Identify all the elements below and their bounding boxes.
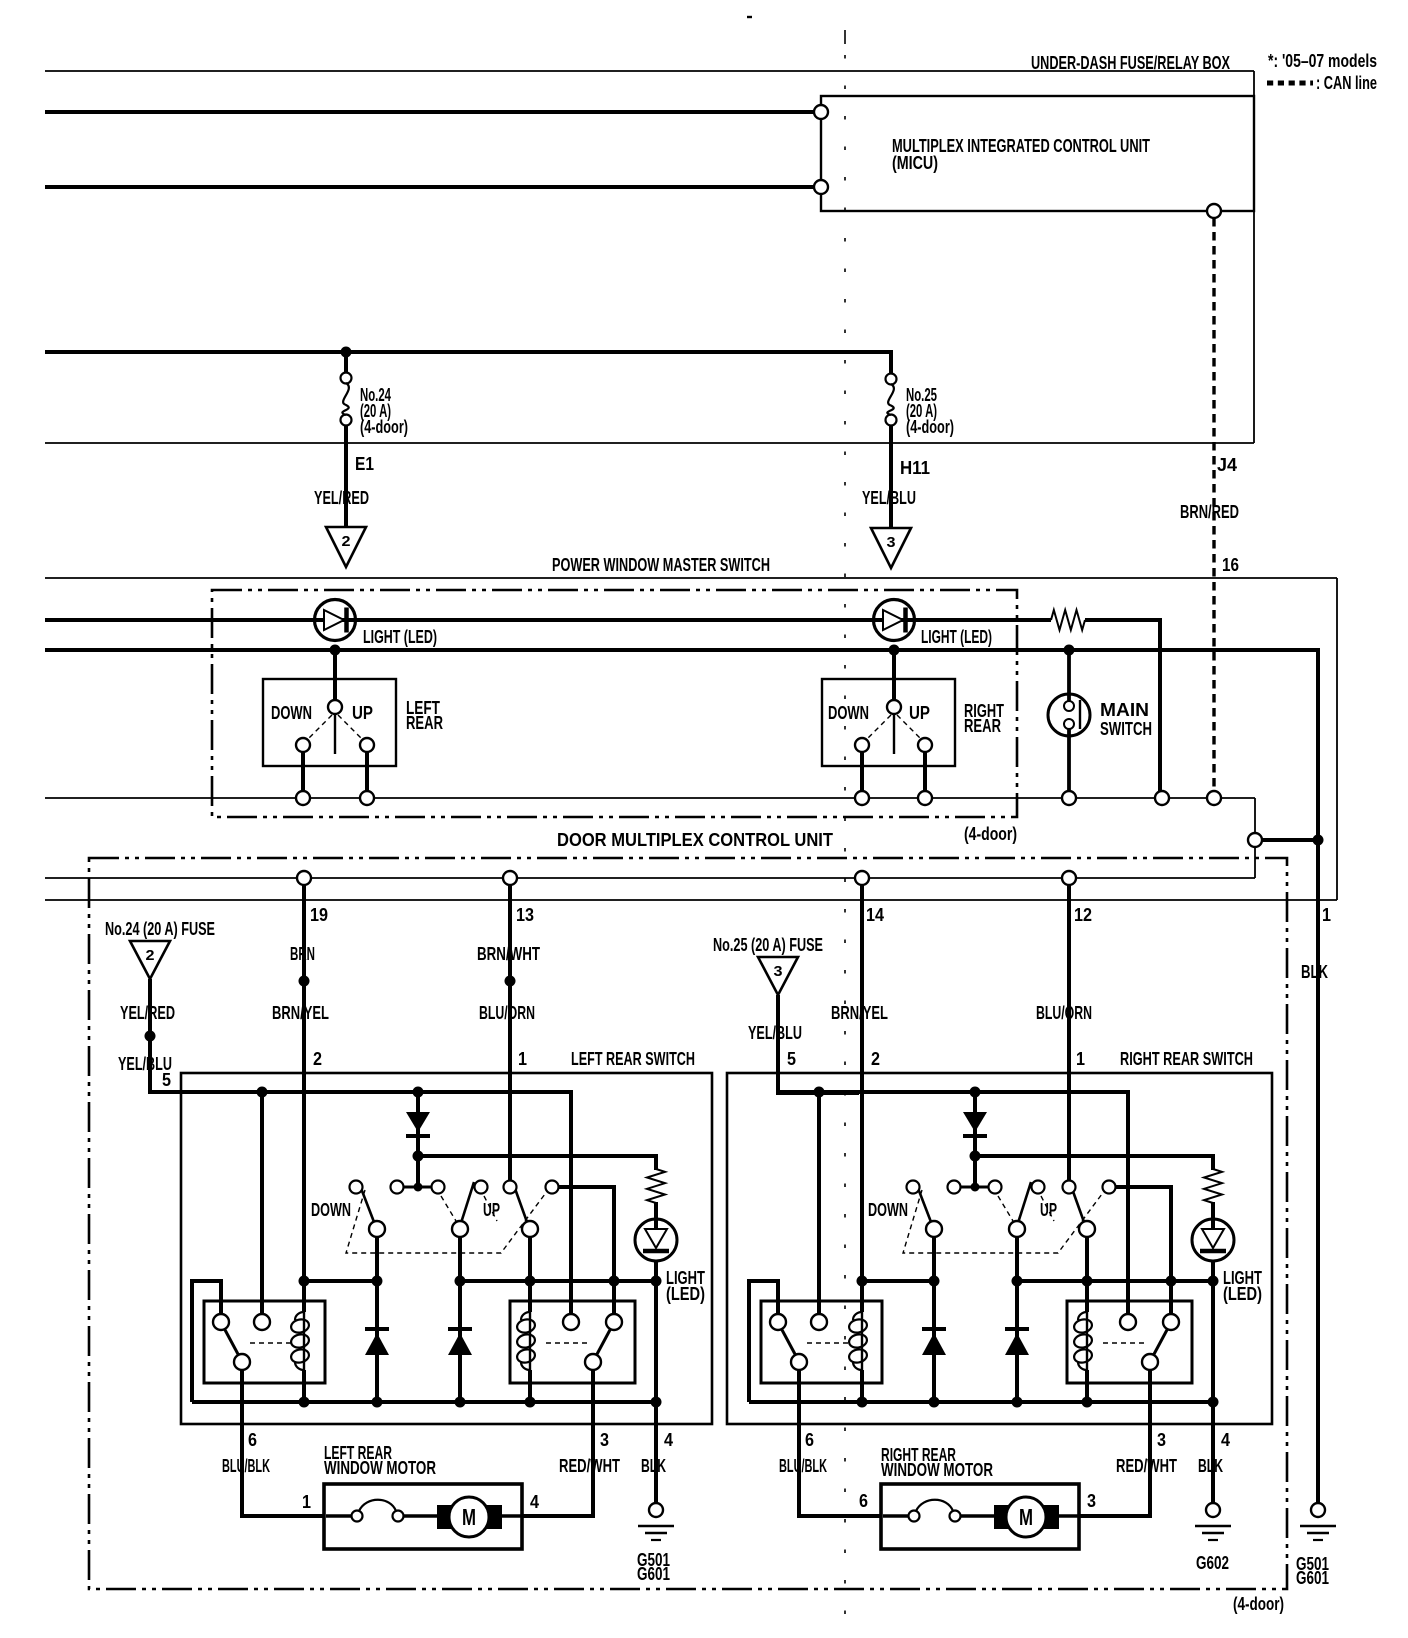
junction RR ground bus LED — [1208, 1397, 1219, 1408]
contact LR c5 — [504, 1181, 517, 1194]
wire master switch box bottom — [45, 899, 1337, 901]
wire LR pin4 BLK — [654, 1402, 658, 1503]
svg-text:BLK: BLK — [1198, 1456, 1223, 1476]
arm RR relay-A — [781, 1328, 796, 1356]
wire fuse No.25 drop — [889, 352, 893, 374]
wire fuse feed bus — [45, 350, 893, 354]
contact LR centre lower — [452, 1221, 468, 1237]
ground G602 right — [1195, 1503, 1231, 1573]
wire under-dash box top — [45, 70, 1254, 72]
wire fuse No.24 output E1 — [344, 425, 348, 527]
diode LR feed — [406, 1112, 430, 1136]
arm RR relay-B — [1153, 1328, 1168, 1356]
contact RR relay-B fixed2 — [1163, 1314, 1179, 1330]
junction LR mid-left a — [299, 1276, 310, 1287]
LED RR light — [1192, 1219, 1234, 1261]
svg-text:BRN/WHT: BRN/WHT — [477, 944, 540, 964]
wire YEL/BLU into right rear switch — [778, 1050, 859, 1093]
junction LR diode feed — [413, 1087, 424, 1098]
LED master left (light) — [315, 600, 356, 641]
svg-text:4: 4 — [530, 1492, 539, 1512]
contact LR c6 — [546, 1181, 559, 1194]
contact left-rear master common — [328, 700, 342, 714]
coil LR relay-A — [290, 1312, 310, 1370]
wire LR resistor to LED — [654, 1202, 658, 1229]
junction BRN/WHT to BLU/ORN — [505, 976, 516, 987]
legend CAN dash sample — [1267, 81, 1313, 86]
junction RR contact row centre — [971, 1183, 980, 1192]
junction LR mid-right b — [525, 1276, 536, 1287]
wire LR pin3 RED/WHT — [522, 1370, 593, 1516]
link dashes LR trapezoid — [346, 1190, 548, 1253]
arm right-rear master switch — [893, 712, 895, 754]
wire CAN line (BRN/RED dashed) — [1212, 218, 1215, 791]
LED LR light — [635, 1219, 677, 1261]
connector arrow 3 (fuse 25 feed) — [871, 528, 911, 568]
wire pin13 BRN/WHT to BLU/ORN — [508, 885, 512, 1180]
link dash left-rear DOWN — [307, 715, 332, 740]
svg-text:M: M — [1019, 1504, 1033, 1530]
junction LR ground bus coil-A — [299, 1397, 310, 1408]
wire pin14 BRN/YEL — [860, 885, 864, 1281]
junction LR ground bus LED — [651, 1397, 662, 1408]
window motor RR box — [881, 1484, 1079, 1549]
arm LR UP switch — [513, 1183, 527, 1222]
wire RR relay-A contact drop — [817, 1092, 821, 1314]
main switch symbol — [1048, 650, 1090, 791]
svg-text:1: 1 — [1076, 1049, 1085, 1069]
fuse No.25 (20 A) — [886, 374, 897, 426]
svg-text:4: 4 — [664, 1430, 673, 1450]
link dash RR relay-B — [1103, 1342, 1145, 1344]
node master-to-door link — [1248, 833, 1262, 847]
wire right-rear master UP pin — [923, 751, 927, 791]
contact LR relay-B moving — [585, 1354, 601, 1370]
relay LR-B box — [510, 1301, 635, 1383]
pin master UP left — [360, 791, 374, 805]
svg-text:19: 19 — [310, 905, 328, 925]
MICU box — [821, 96, 1254, 211]
svg-text:MAIN: MAIN — [1100, 700, 1149, 720]
junction RR relay-A hold contact feed — [814, 1087, 825, 1098]
wire master output right corner — [1254, 798, 1256, 833]
junction RR diode feed — [970, 1087, 981, 1098]
contact LR relay-B fixed2 — [606, 1314, 622, 1330]
contact RR c2 — [948, 1181, 961, 1194]
pin 13 node — [503, 871, 517, 885]
contact RR relay-B moving — [1142, 1354, 1158, 1370]
contact LR c4 — [475, 1181, 488, 1194]
svg-text:2: 2 — [342, 533, 351, 550]
arm RR DOWN switch — [916, 1183, 931, 1222]
wire LR diode branch — [416, 1092, 420, 1187]
wire RR relay-A coil bottom — [860, 1370, 864, 1402]
link dash right-rear UP — [897, 715, 922, 740]
wire RR relay-A coil top — [860, 1281, 864, 1312]
junction YEL/RED to YEL/BLU — [145, 1031, 156, 1042]
wire LR LED feed — [418, 1156, 656, 1170]
wire LR c6 to relay-B — [558, 1187, 614, 1314]
arm left-rear master switch — [334, 712, 336, 754]
svg-text:SWITCH: SWITCH — [1100, 719, 1152, 739]
contact RR c3 — [989, 1181, 1002, 1194]
diode RR feed — [963, 1112, 987, 1136]
wire LR relay-A coil bottom — [302, 1370, 306, 1402]
contact LR motor conn a — [352, 1511, 363, 1522]
connector arrow 2 (No.24 fuse) — [130, 941, 170, 979]
pin master DOWN left — [296, 791, 310, 805]
svg-text:BLK: BLK — [641, 1456, 666, 1476]
svg-text:16: 16 — [1222, 555, 1239, 575]
junction RR c6 mid-bus — [1166, 1276, 1177, 1287]
svg-text:UP: UP — [352, 703, 373, 723]
wire RR centre contact drop — [1015, 1237, 1019, 1402]
svg-text:YEL/RED: YEL/RED — [120, 1003, 175, 1023]
svg-text:BRN/RED: BRN/RED — [1180, 502, 1239, 522]
svg-text:BRN: BRN — [290, 944, 315, 964]
arm LR relay-A — [224, 1328, 239, 1356]
wire under-dash box bottom — [45, 442, 1254, 444]
wire RR motor internal mid — [960, 1514, 997, 1518]
contact LR c3 — [432, 1181, 445, 1194]
relay RR-B box — [1067, 1301, 1192, 1383]
wire RR LED feed — [975, 1156, 1213, 1170]
link dash LR c3 — [441, 1196, 456, 1221]
coil RR relay-A — [848, 1312, 868, 1370]
wire LR centre contact drop — [458, 1237, 462, 1402]
contact right-rear master DOWN — [855, 738, 869, 752]
wire RR pin1 to UP contact — [1067, 1073, 1071, 1181]
contact RR relay-A moving — [791, 1354, 807, 1370]
svg-text:BRN/YEL: BRN/YEL — [831, 1003, 888, 1023]
contact LR relay-A moving — [234, 1354, 250, 1370]
link dash RR relay-A — [807, 1342, 851, 1344]
svg-text:(MICU): (MICU) — [892, 153, 938, 173]
svg-text:DOWN: DOWN — [868, 1200, 908, 1220]
wire door unit pin row right riser — [1254, 847, 1256, 878]
wire RR c6 to relay-B — [1115, 1187, 1171, 1314]
pin 19 node — [297, 871, 311, 885]
connector arrow 3 (No.25 fuse) — [758, 957, 798, 995]
contact RR relay-B fixed1 — [1120, 1314, 1136, 1330]
link dash LR relay-B — [546, 1342, 588, 1344]
pin MICU lower-left — [814, 180, 828, 194]
wire master switch output row — [45, 797, 1255, 799]
svg-text:UP: UP — [483, 1200, 500, 1220]
wire RR ground bus — [749, 1400, 1213, 1404]
wire RR pin4 BLK — [1211, 1402, 1215, 1503]
wire RR contact row centre — [954, 1186, 995, 1189]
wire master switch box top — [45, 577, 1337, 579]
wire LED illumination feed right — [1085, 620, 1160, 791]
resistor LR LED — [647, 1169, 665, 1203]
contact left-rear master UP — [360, 738, 374, 752]
contact right-rear master UP — [918, 738, 932, 752]
svg-text:(4-door): (4-door) — [1233, 1594, 1284, 1614]
svg-text:G601: G601 — [637, 1564, 670, 1584]
wire RR motor internal right — [1057, 1514, 1078, 1518]
svg-text:YEL/BLU: YEL/BLU — [862, 488, 916, 508]
svg-text:1: 1 — [1322, 905, 1331, 925]
svg-text:1: 1 — [302, 1492, 311, 1512]
svg-text:3: 3 — [774, 963, 783, 980]
wire LR relay-B coil bottom — [528, 1370, 532, 1402]
link dash RR c4 — [1041, 1196, 1054, 1221]
junction RR ground bus coil-B — [1082, 1397, 1093, 1408]
wire right-rear master DOWN pin — [860, 751, 864, 791]
svg-text:RED/WHT: RED/WHT — [559, 1456, 620, 1476]
svg-text:6: 6 — [805, 1430, 814, 1450]
link dash right-rear DOWN — [866, 715, 891, 740]
svg-text:YEL/RED: YEL/RED — [314, 488, 369, 508]
junction LED left / switch — [330, 645, 341, 656]
svg-text:DOWN: DOWN — [828, 703, 869, 723]
svg-text:LIGHT (LED): LIGHT (LED) — [363, 627, 437, 647]
contact LR c2 — [391, 1181, 404, 1194]
wire RR resistor to LED — [1211, 1202, 1215, 1229]
svg-text:POWER WINDOW MASTER SWITCH: POWER WINDOW MASTER SWITCH — [552, 555, 770, 575]
svg-text:2: 2 — [146, 947, 155, 964]
wire LR mid bus left — [304, 1279, 377, 1283]
diode LR UP clamp — [448, 1329, 472, 1355]
svg-text:2: 2 — [871, 1049, 880, 1069]
wire RR mid bus right — [1013, 1279, 1213, 1283]
door multiplex control unit dash box — [89, 858, 1287, 1589]
contact LR c1 — [350, 1181, 363, 1194]
svg-text:DOWN: DOWN — [311, 1200, 351, 1220]
svg-text:No.25 (20 A) FUSE: No.25 (20 A) FUSE — [713, 935, 823, 955]
wire pin19 BRN to BRN/YEL — [302, 885, 306, 1281]
contact LR relay-A fixed — [254, 1314, 270, 1330]
svg-text:(4-door): (4-door) — [360, 417, 408, 437]
wire LR contact row centre — [397, 1186, 438, 1189]
wire RR diode branch — [973, 1092, 977, 1187]
junction RR ground bus coil-A — [857, 1397, 868, 1408]
resistor RR LED — [1204, 1169, 1222, 1203]
junction BLK ground lead — [1313, 835, 1324, 846]
wire RR DOWN contact drop — [932, 1237, 936, 1402]
svg-text:13: 13 — [516, 905, 534, 925]
wire master switch common bus — [45, 650, 1318, 840]
diode LR DOWN clamp — [365, 1329, 389, 1355]
svg-text:BLU/ORN: BLU/ORN — [479, 1003, 535, 1023]
svg-text:UNDER-DASH FUSE/RELAY BOX: UNDER-DASH FUSE/RELAY BOX — [1031, 53, 1230, 73]
wire LR UP contact drop — [528, 1237, 532, 1312]
svg-text:: CAN line: : CAN line — [1316, 73, 1377, 93]
svg-text:6: 6 — [859, 1491, 868, 1511]
svg-text:BRN/YEL: BRN/YEL — [272, 1003, 329, 1023]
wire LR DOWN contact drop — [375, 1237, 379, 1402]
contact right-rear master common — [887, 700, 901, 714]
svg-text:J4: J4 — [1217, 455, 1237, 475]
svg-text:(LED): (LED) — [666, 1284, 705, 1304]
pin MICU upper-left — [814, 105, 828, 119]
wire YEL/RED drop — [148, 979, 152, 1036]
svg-text:3: 3 — [887, 534, 896, 551]
pin 12 node — [1062, 871, 1076, 885]
connector arrow 2 (fuse 24 feed) — [326, 527, 366, 567]
svg-text:BLK: BLK — [1301, 962, 1328, 982]
arm LR relay-B — [596, 1328, 611, 1356]
relay LR-A box — [204, 1301, 325, 1383]
wire LR relay-A coil top — [302, 1281, 306, 1312]
junction LR relay-A hold contact feed — [257, 1087, 268, 1098]
contact RR UP lower — [1079, 1221, 1095, 1237]
svg-text:BLU/BLK: BLU/BLK — [779, 1456, 827, 1476]
wire LR mid bus right — [456, 1279, 656, 1283]
wire master switch box right edge — [1336, 578, 1338, 900]
wire fuse No.25 output H11 — [889, 425, 893, 528]
svg-text:3: 3 — [1157, 1430, 1166, 1450]
wire LR switch feed bus — [150, 1092, 571, 1314]
contact RR centre lower — [1009, 1221, 1025, 1237]
svg-text:YEL/BLU: YEL/BLU — [748, 1023, 802, 1043]
contact left-rear master DOWN — [296, 738, 310, 752]
wire left-rear master contact stem — [333, 650, 337, 701]
junction LR ground bus diode2 — [455, 1397, 466, 1408]
junction LR c6 mid-bus — [609, 1276, 620, 1287]
junction LED right / switch — [889, 645, 900, 656]
contact RR DOWN lower — [926, 1221, 942, 1237]
svg-text:(4-door): (4-door) — [964, 824, 1017, 844]
wire LED illumination feed left — [45, 618, 1051, 622]
wire RR motor internal left — [883, 1514, 909, 1518]
svg-text:No.24 (20 A) FUSE: No.24 (20 A) FUSE — [105, 919, 215, 939]
junction RR mid-left a — [857, 1276, 868, 1287]
pin 14 node — [855, 871, 869, 885]
wire link to BLK ground lead — [1262, 838, 1318, 842]
svg-text:*: '05–07 models: *: '05–07 models — [1268, 51, 1377, 71]
link LR motor connector arc — [359, 1500, 396, 1511]
svg-text:14: 14 — [866, 905, 884, 925]
svg-text:LEFT REAR SWITCH: LEFT REAR SWITCH — [571, 1049, 695, 1069]
resistor master illumination — [1051, 610, 1085, 630]
wire door unit pin row — [45, 877, 1255, 879]
arm RR centre lever — [1018, 1182, 1031, 1223]
wire left-rear master DOWN pin — [301, 751, 305, 791]
svg-text:LIGHT (LED): LIGHT (LED) — [921, 627, 992, 647]
contact RR c5 — [1063, 1181, 1076, 1194]
wire left-rear master UP pin — [365, 751, 369, 791]
svg-text:6: 6 — [248, 1430, 257, 1450]
motor RR M symbol — [994, 1497, 1059, 1537]
diode RR DOWN clamp — [922, 1329, 946, 1355]
junction LR mid-right LED — [651, 1276, 662, 1287]
svg-text:DOOR MULTIPLEX CONTROL UNIT: DOOR MULTIPLEX CONTROL UNIT — [557, 830, 833, 850]
wire pin12 BLU/ORN — [1067, 885, 1071, 1180]
wire LR pin1 to UP contact — [508, 1073, 512, 1181]
link dashes RR trapezoid — [903, 1190, 1105, 1253]
wire LR LED to bus — [654, 1261, 658, 1402]
svg-text:M: M — [462, 1504, 476, 1530]
coil RR relay-B — [1073, 1312, 1093, 1370]
svg-text:1: 1 — [518, 1049, 527, 1069]
svg-text:4: 4 — [1221, 1430, 1230, 1450]
master switch inner dash box (4-door) — [212, 590, 1017, 817]
wire battery feed B (to MICU) — [45, 185, 815, 189]
junction RR mid-right LED — [1208, 1276, 1219, 1287]
LR rear switch box — [181, 1073, 712, 1424]
link dash LR relay-A — [250, 1342, 294, 1344]
svg-text:(4-door): (4-door) — [906, 417, 954, 437]
contact LR DOWN lower — [369, 1221, 385, 1237]
svg-text:G601: G601 — [1296, 1568, 1329, 1588]
junction RR mid-left b — [929, 1276, 940, 1287]
svg-text:UP: UP — [1040, 1200, 1057, 1220]
svg-text:3: 3 — [1087, 1491, 1096, 1511]
wire RR LED to bus — [1211, 1261, 1215, 1402]
wire battery feed A (to MICU) — [45, 110, 815, 114]
arm RR UP switch — [1070, 1183, 1084, 1222]
wire LR pin6 BLU/BLK to motor — [242, 1370, 324, 1516]
wire RR switch feed bus — [778, 1092, 1128, 1314]
junction RR ground bus diode1 — [929, 1397, 940, 1408]
svg-text:E1: E1 — [355, 454, 374, 474]
pin MICU J4 bottom — [1207, 204, 1221, 218]
coil LR relay-B — [516, 1312, 536, 1370]
arm LR DOWN switch — [359, 1183, 374, 1222]
contact RR c1 — [907, 1181, 920, 1194]
junction LR mid-right a — [455, 1276, 466, 1287]
junction RR mid-right a — [1012, 1276, 1023, 1287]
svg-text:DOWN: DOWN — [271, 703, 312, 723]
svg-text:(LED): (LED) — [1223, 1284, 1262, 1304]
master left-rear switch box — [263, 679, 396, 766]
wire LR motor internal right — [500, 1514, 521, 1518]
contact RR c4 — [1032, 1181, 1045, 1194]
contact LR relay-A common — [213, 1314, 229, 1330]
svg-text:REAR: REAR — [406, 713, 443, 733]
wire YEL/BLU into left rear switch — [150, 1036, 302, 1092]
junction fuse No.24 tap — [341, 347, 352, 358]
contact RR motor conn a — [909, 1511, 920, 1522]
pin master UP right — [918, 791, 932, 805]
svg-text:UP: UP — [909, 703, 930, 723]
junction LR mid-left b — [372, 1276, 383, 1287]
svg-text:5: 5 — [787, 1049, 796, 1069]
junction RR mid-right b — [1082, 1276, 1093, 1287]
svg-text:2: 2 — [313, 1049, 322, 1069]
wire under-dash box right edge — [1253, 71, 1255, 443]
wire RR pin6 BLU/BLK to motor — [799, 1370, 881, 1516]
junction LR contact row centre — [414, 1183, 423, 1192]
wire BLK ground lead — [1316, 840, 1320, 1503]
svg-text:RED/WHT: RED/WHT — [1116, 1456, 1177, 1476]
wire RR relay-A common loop — [749, 1281, 778, 1402]
pin CAN line bottom — [1207, 791, 1221, 805]
pin illumination return — [1155, 791, 1169, 805]
ground G501/G601 right — [1296, 1503, 1336, 1588]
wire LR relay-A common loop — [192, 1281, 221, 1402]
fuse No.24 (20 A) — [341, 373, 352, 426]
link RR motor connector arc — [916, 1500, 953, 1511]
svg-text:G602: G602 — [1196, 1553, 1229, 1573]
svg-text:12: 12 — [1074, 905, 1092, 925]
wire YEL/BLU drop right — [776, 995, 780, 1093]
pin master DOWN right — [855, 791, 869, 805]
junction BRN to BRN/YEL — [299, 976, 310, 987]
master right-rear switch box — [822, 679, 955, 766]
contact LR UP lower — [522, 1221, 538, 1237]
diode RR UP clamp — [1005, 1329, 1029, 1355]
LED master right (light) — [874, 600, 915, 641]
svg-text:BLU/ORN: BLU/ORN — [1036, 1003, 1092, 1023]
motor LR M symbol — [437, 1497, 502, 1537]
contact RR motor conn b — [950, 1511, 961, 1522]
wire right-rear master contact stem — [892, 650, 896, 701]
contact RR relay-A common — [770, 1314, 786, 1330]
junction LR ground bus coil-B — [525, 1397, 536, 1408]
